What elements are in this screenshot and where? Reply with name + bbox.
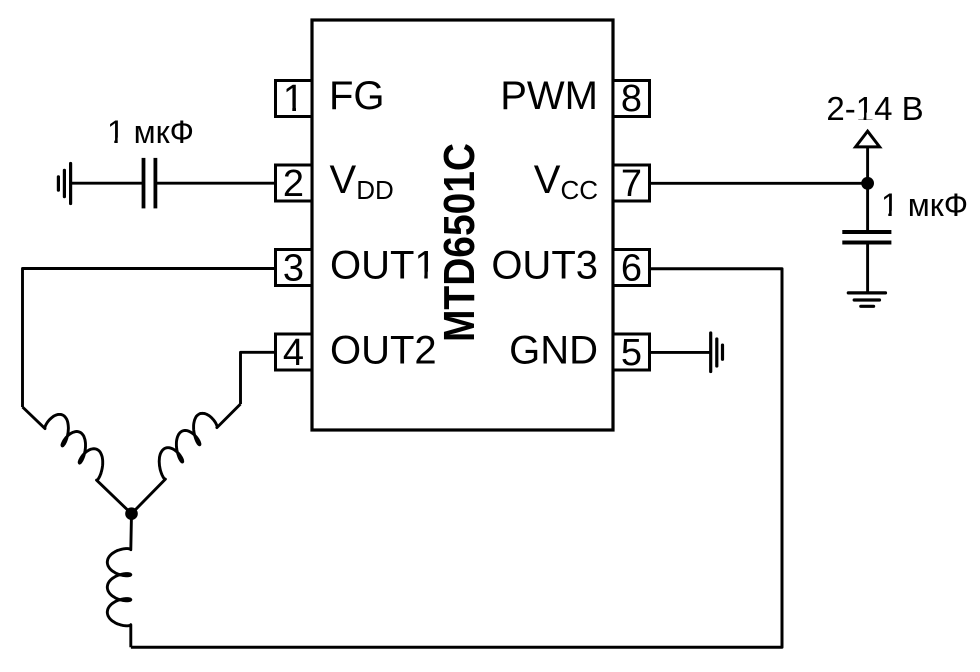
inductor L3 (bottom winding) [107,514,131,648]
svg-text:1 мкФ: 1 мкФ [881,187,968,223]
inductor L2 (upper-right winding) [132,404,241,514]
svg-text:OUT1: OUT1 [330,243,437,287]
IC U1 MTD6501C body [312,20,613,430]
capacitor C2 1uF (right) [842,232,891,243]
wire arrow to node [866,147,869,231]
wire pin 7 to node [650,182,868,185]
svg-text:OUT3: OUT3 [491,243,598,287]
svg-text:4: 4 [283,332,304,374]
svg-text:3: 3 [283,248,304,290]
pin 3 box [276,250,313,286]
wire pin 4 left and down [241,352,276,404]
glyph adjustment masks (digit 1 foot removal) [108,106,899,279]
svg-text:1: 1 [283,78,304,120]
inductor L1 (upper-left winding) [23,407,132,514]
capacitor C1 1uF (left) [144,158,156,209]
svg-text:1 мкФ: 1 мкФ [107,114,194,150]
node star junction dot [125,507,138,520]
power arrow symbol [856,131,880,147]
svg-text:2-14 В: 2-14 В [826,90,923,127]
wire C2 to ground [866,243,869,293]
wire bottom loop from L3 to pin 6 [131,269,782,648]
svg-text:MTD6501C: MTD6501C [435,143,484,342]
pin 5 box [613,334,650,370]
svg-text:GND: GND [509,329,598,373]
pin 4 box [276,334,313,370]
node junction dot VCC [861,177,874,190]
svg-text:5: 5 [621,332,642,374]
svg-text:FG: FG [329,74,385,118]
pin 6 box [613,250,650,286]
pin 2 box [276,165,313,201]
svg-text:OUT2: OUT2 [330,329,437,373]
pin 7 box [613,165,650,201]
wire ground to C1 [71,182,144,185]
wire pin 3 left and down [23,269,276,408]
ground (below C2) [848,293,885,306]
svg-text:2: 2 [283,163,304,205]
wire C1 to pin 2 [155,182,275,185]
pin 1 box [276,81,313,117]
wire pin 5 to ground [650,351,711,354]
pin 8 box [613,81,650,117]
svg-text:7: 7 [621,163,642,205]
ground (left, at C1) [58,164,70,204]
ground (at pin 5) [711,333,723,372]
svg-text:6: 6 [621,248,642,290]
svg-text:8: 8 [621,78,642,120]
svg-text:PWM: PWM [500,74,598,118]
